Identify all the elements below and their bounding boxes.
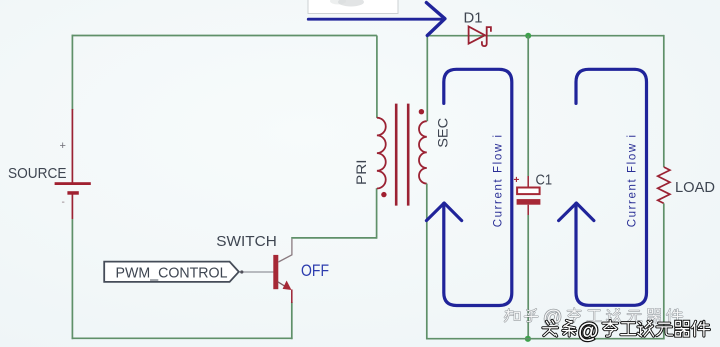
wire: primary left vertical (top) [71, 35, 73, 110]
capacitor C1 top pin [527, 176, 529, 187]
wire: load top vertical [663, 35, 665, 167]
svg-text:@: @ [543, 308, 562, 329]
capacitor C1 top plate [517, 188, 540, 195]
battery BT1 bottom pin [71, 195, 73, 220]
svg-text:OFF: OFF [301, 261, 329, 280]
wire: emitter vertical [291, 302, 293, 339]
transformer T1 secondary winding [419, 121, 427, 183]
diode D1 anode triangle [469, 27, 485, 44]
wire: C1 top vertical [527, 36, 529, 176]
current loop 1 outline [444, 69, 512, 305]
annotation gray smudge [338, 0, 364, 7]
annotation white box remnant [308, 0, 398, 14]
junction node bottom [525, 336, 531, 342]
diode D1 schottky cathode [482, 27, 491, 46]
junction node top [525, 33, 531, 39]
svg-text:+: + [60, 140, 66, 152]
wire: secondary top horizontal [427, 35, 664, 37]
svg-text:SWITCH: SWITCH [216, 233, 276, 250]
wire: secondary bottom vertical [426, 184, 428, 340]
transformer T1 primary polarity dot [381, 192, 386, 197]
arrow: top current direction shaft [308, 18, 441, 21]
svg-text:-: - [62, 197, 65, 208]
wire: secondary top vertical [426, 35, 428, 121]
transformer T1 core bar left [395, 104, 398, 206]
resistor LOAD [658, 167, 670, 203]
current loop 2 arrowhead [559, 203, 594, 221]
wire: left vertical (bottom) [71, 219, 73, 339]
capacitor C1 bottom pin [527, 205, 529, 215]
svg-text:LOAD: LOAD [675, 179, 715, 196]
wire: load bottom vertical [663, 203, 665, 339]
svg-text:@: @ [578, 320, 598, 343]
wire: primary winding top vertical [376, 36, 378, 118]
current loop 1 arrowhead [426, 203, 461, 221]
wire: primary bottom vertical [376, 188, 378, 239]
wire: base connection line [239, 271, 274, 273]
transformer T1 secondary polarity dot [419, 109, 424, 114]
transistor Q1 collector [278, 239, 292, 262]
svg-text:PRI: PRI [353, 159, 369, 185]
battery BT1 plates [55, 182, 91, 195]
watermark toutiao [543, 320, 710, 336]
wire: bottom-right rail [427, 338, 665, 340]
arrow: top current direction head [426, 3, 445, 36]
wire: bottom-left rail [72, 337, 293, 339]
svg-text:Current Flow i: Current Flow i [626, 133, 638, 227]
watermark zhihu [505, 308, 683, 322]
svg-text:C1: C1 [536, 171, 553, 188]
svg-text:SEC: SEC [435, 118, 451, 148]
transistor Q1 emitter [278, 282, 287, 288]
current loop 2 outline [576, 69, 647, 305]
flag PWM_CONTROL outline [104, 262, 239, 282]
transformer T1 core bar right [407, 104, 410, 206]
svg-text:+: + [514, 175, 520, 186]
wire: collector horizontal [291, 237, 376, 239]
wire: C1 bottom vertical [527, 215, 529, 339]
svg-text:PWM_CONTROL: PWM_CONTROL [116, 265, 228, 282]
transistor Q1 base bar [273, 255, 278, 289]
transistor Q1 emitter pin [291, 290, 293, 304]
transformer T1 primary winding [377, 118, 386, 189]
svg-text:Current Flow i: Current Flow i [493, 133, 505, 227]
svg-text:SOURCE: SOURCE [8, 165, 67, 182]
battery BT1 top pin [71, 109, 73, 183]
capacitor C1 bottom plate [517, 199, 541, 205]
wire: primary top horizontal [72, 35, 377, 37]
svg-text:D1: D1 [464, 10, 483, 27]
node: base wire end dot [240, 270, 243, 273]
transistor Q1 emitter arrow [283, 281, 292, 291]
